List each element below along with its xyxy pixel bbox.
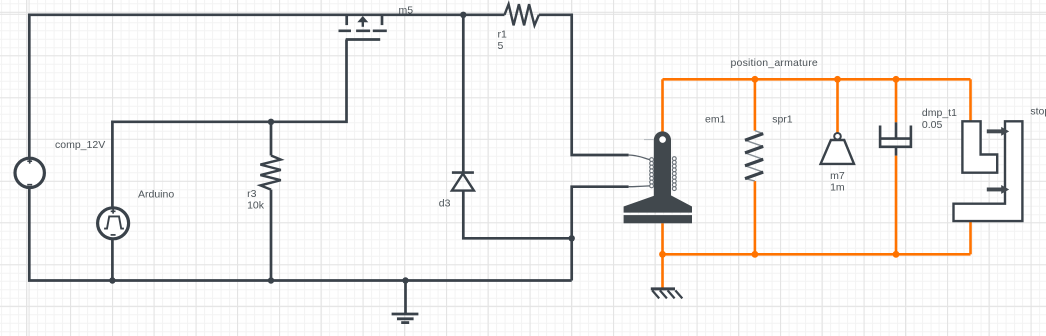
pulse source Arduino bbox=[98, 208, 129, 239]
wire em1 bottom to mech ground bbox=[661, 223, 664, 288]
svg-text:dmp_t1: dmp_t1 bbox=[922, 107, 957, 119]
svg-text:m7: m7 bbox=[830, 170, 845, 182]
diode d3 bbox=[452, 173, 474, 191]
node junction at m5/r1/d3 bbox=[460, 12, 466, 18]
node em1 bottom bbox=[659, 251, 666, 258]
wire em1 lower coil lead to junction B bbox=[572, 187, 629, 239]
svg-text:5: 5 bbox=[498, 40, 504, 52]
wire top rail from comp_12V to m5 bbox=[29, 15, 463, 157]
wire junction to r1 bbox=[463, 13, 504, 16]
svg-text:em1: em1 bbox=[705, 114, 726, 126]
svg-text:spr1: spr1 bbox=[772, 114, 793, 126]
wire spr1 top lead bbox=[754, 79, 757, 130]
svg-text:r3: r3 bbox=[247, 188, 256, 200]
wire em1 plunger to top rail bbox=[661, 79, 664, 133]
svg-text:m5: m5 bbox=[399, 5, 414, 17]
wire junction to d3 bbox=[462, 15, 465, 173]
voltage source comp_12V bbox=[15, 158, 44, 187]
wire r1 to em1 upper coil lead bbox=[539, 15, 629, 155]
stop element bbox=[954, 121, 1023, 221]
node spr1 bottom bbox=[752, 251, 759, 258]
wire bottom ground rail bbox=[29, 189, 571, 281]
stop arrow lower bbox=[987, 185, 1009, 194]
wire top rail to stop bbox=[969, 79, 972, 122]
wire dmp_t1 bottom lead bbox=[895, 156, 898, 255]
svg-text:d3: d3 bbox=[439, 198, 451, 210]
wire Arduino bottom to rail bbox=[111, 240, 114, 281]
node r3/rail bbox=[268, 277, 274, 283]
ground electrical bbox=[392, 277, 419, 322]
spring spr1 bbox=[745, 131, 763, 181]
wire position_armature top rail bbox=[663, 78, 971, 81]
resistor r3 bbox=[260, 156, 280, 190]
wire stop bottom lead bbox=[969, 221, 972, 254]
node dmp_t1 top bbox=[893, 76, 900, 83]
wire bottom mechanical rail bbox=[663, 253, 971, 256]
svg-text:position_armature: position_armature bbox=[731, 57, 818, 69]
wire m7 lead bbox=[836, 79, 839, 133]
wire r3 top bbox=[270, 122, 273, 156]
svg-text:stop1: stop1 bbox=[1030, 106, 1046, 118]
svg-text:r1: r1 bbox=[498, 29, 507, 41]
stop arrow upper bbox=[987, 127, 1009, 136]
mass m7 bbox=[821, 133, 854, 164]
node spr1 top bbox=[752, 76, 759, 83]
orange mechanical net bbox=[659, 76, 970, 288]
wire junction B down to ground rail bbox=[570, 238, 573, 280]
node dmp_t1 bottom bbox=[893, 251, 900, 258]
svg-text:0.05: 0.05 bbox=[922, 119, 943, 131]
solenoid em1 bbox=[624, 131, 692, 223]
svg-text:comp_12V: comp_12V bbox=[55, 139, 105, 151]
node Arduino/rail bbox=[109, 277, 115, 283]
wire r3 bottom bbox=[270, 190, 273, 281]
svg-text:Arduino: Arduino bbox=[138, 189, 174, 201]
ground mechanical bbox=[651, 289, 683, 299]
svg-text:1m: 1m bbox=[830, 181, 845, 193]
wire spr1 bottom lead bbox=[754, 181, 757, 254]
node m7 top bbox=[834, 76, 841, 83]
node junction B bbox=[569, 235, 575, 241]
wire m5 gate to arduino bbox=[112, 40, 346, 207]
damper dmp_t1 bbox=[880, 122, 911, 155]
transistor m5 bbox=[339, 15, 387, 40]
wire dmp_t1 top lead bbox=[895, 79, 898, 122]
resistor r1 bbox=[505, 4, 539, 25]
wire d3 to junction B bbox=[463, 191, 571, 239]
node junction gate/r3 bbox=[268, 119, 274, 125]
svg-text:10k: 10k bbox=[247, 199, 265, 211]
